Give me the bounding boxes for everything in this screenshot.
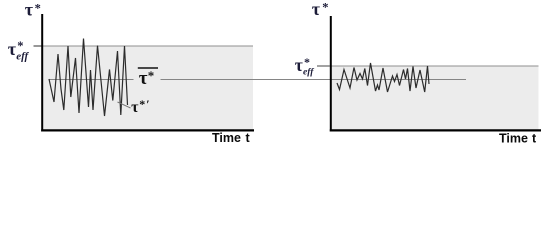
svg-text:Time: Time — [212, 131, 241, 145]
svg-text:τ: τ — [312, 0, 321, 19]
svg-text:*: * — [139, 97, 145, 111]
svg-text:eff: eff — [16, 51, 29, 63]
svg-text:′: ′ — [146, 97, 149, 111]
right y-axis — [330, 16, 332, 132]
svg-text:*: * — [148, 68, 155, 83]
svg-text:eff: eff — [303, 68, 314, 78]
right plot shaded region — [332, 66, 539, 131]
svg-text:*: * — [322, 1, 328, 15]
right x-axis — [330, 129, 541, 131]
left tau*_eff level line — [34, 45, 254, 47]
right tau*_eff level line — [317, 65, 539, 67]
left y-axis — [41, 14, 43, 132]
left waveform — [49, 39, 128, 117]
svg-text:τ: τ — [131, 99, 139, 116]
mean line (long segment extending into right plot) — [161, 79, 467, 81]
svg-text:τ: τ — [295, 55, 303, 75]
label tau-bar* (mean) — [138, 67, 158, 69]
right waveform — [337, 63, 429, 92]
svg-text:τ: τ — [25, 0, 34, 19]
left plot shaded region — [42, 46, 253, 131]
tau*' pointer line — [118, 102, 131, 108]
left x-axis — [41, 129, 254, 131]
svg-text:τ: τ — [139, 68, 148, 89]
svg-text:*: * — [35, 2, 41, 16]
mean line (left segment before label gap) — [49, 79, 134, 81]
svg-text:Time: Time — [499, 131, 528, 145]
right tau*_eff tick — [317, 65, 330, 67]
left tau*_eff tick — [34, 45, 44, 47]
